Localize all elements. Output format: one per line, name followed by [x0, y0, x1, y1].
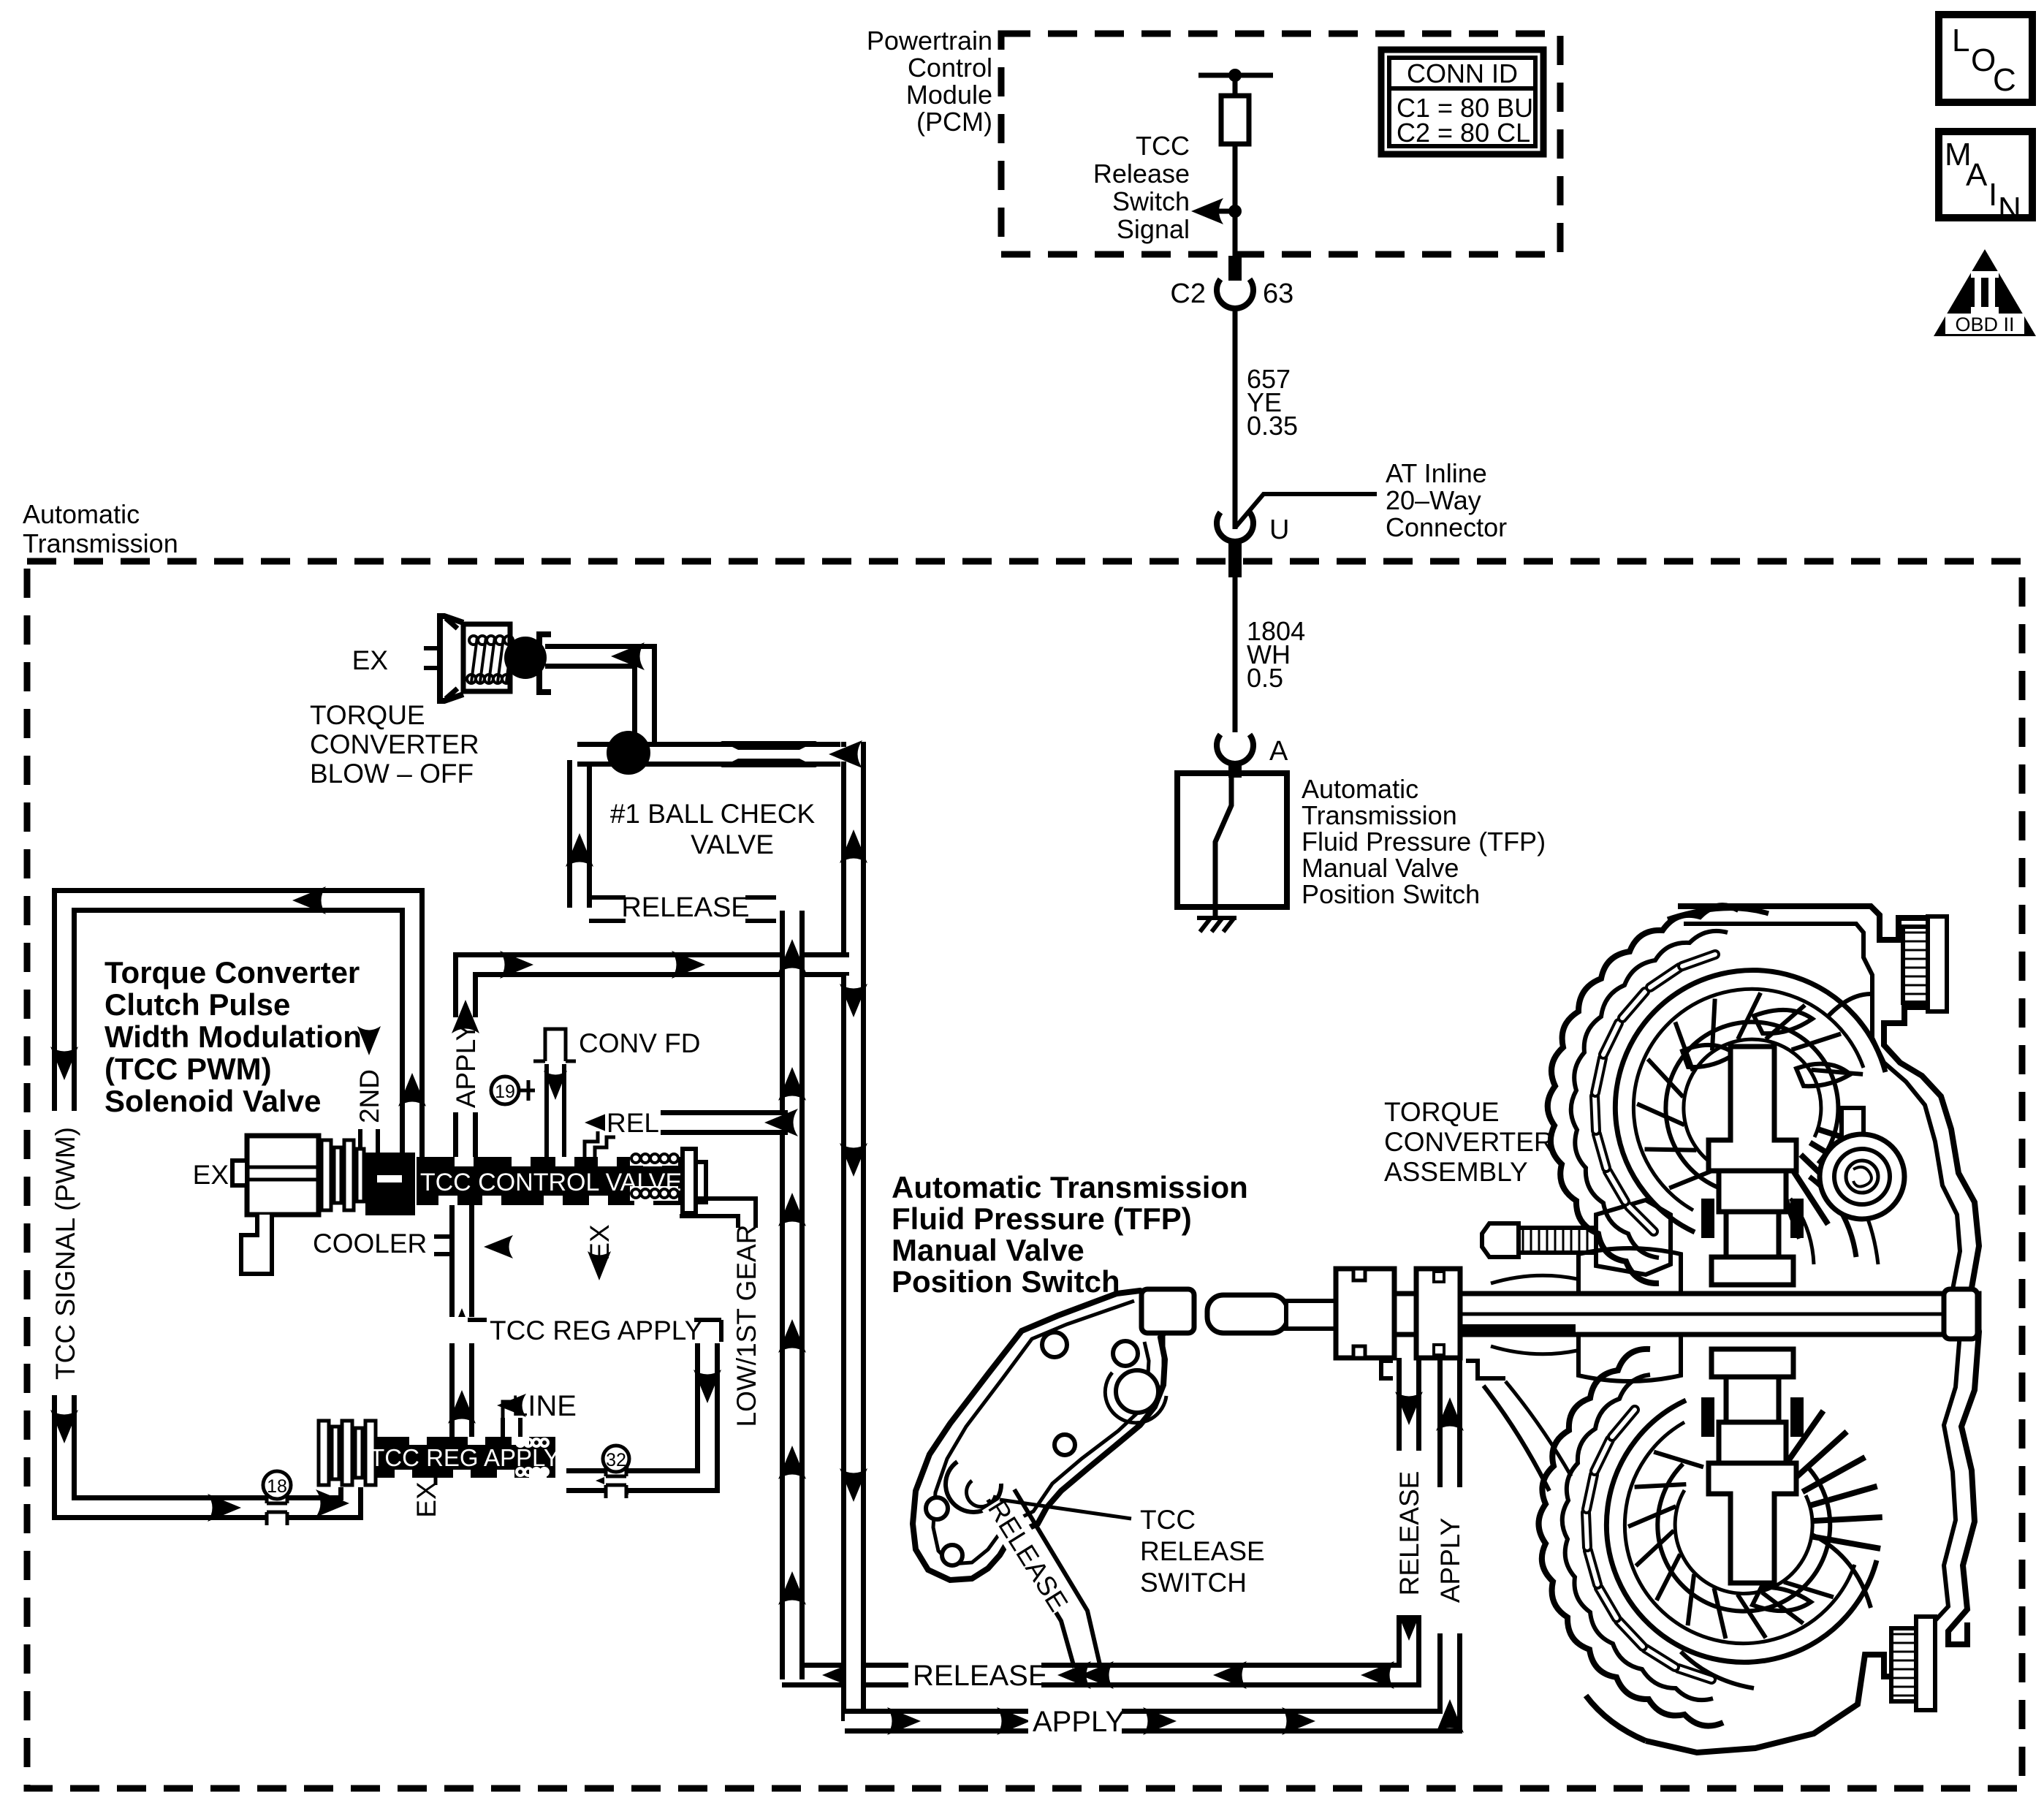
ball check valve seat: [721, 741, 817, 750]
svg-text:EX: EX: [411, 1481, 441, 1517]
CONN ID table: [1381, 50, 1543, 154]
svg-text:Solenoid Valve: Solenoid Valve: [105, 1084, 321, 1118]
wire resistor to pin: [1233, 144, 1238, 257]
svg-text:C2: C2: [1170, 278, 1206, 309]
converter torus shell (bottom): [1539, 1349, 1724, 1726]
svg-text:Width Modulation: Width Modulation: [105, 1020, 362, 1054]
pipe reg apply feedback: [566, 1343, 707, 1481]
svg-text:APPLY: APPLY: [451, 1023, 481, 1109]
label APPLY (bottom channel): [1028, 1705, 1122, 1737]
svg-text:EX: EX: [352, 645, 388, 675]
svg-text:32: 32: [606, 1450, 626, 1470]
TCC release switch lever: [988, 1500, 1074, 1668]
TFP manual valve position switch (electrical): [1177, 773, 1287, 907]
TCC regulator apply valve: [376, 1437, 555, 1478]
converter stud (left): [1519, 1228, 1596, 1253]
turbine blades (top): [1669, 1169, 1717, 1188]
svg-text:L: L: [1952, 23, 1969, 58]
svg-text:C: C: [1993, 62, 2016, 98]
pipe ball check seat: [577, 742, 840, 767]
pipe ball check riser (upper): [841, 742, 866, 979]
svg-text:Clutch Pulse: Clutch Pulse: [105, 987, 290, 1022]
pipe apply from TCC control valve: [466, 965, 849, 1157]
svg-text:Position Switch: Position Switch: [892, 1264, 1120, 1299]
svg-text:A: A: [1269, 736, 1288, 767]
label RELEASE (ball check): [589, 895, 626, 900]
svg-text:#1 BALL CHECK: #1 BALL CHECK: [610, 799, 816, 829]
svg-text:Signal: Signal: [1117, 214, 1190, 244]
svg-text:(PCM): (PCM): [916, 107, 992, 137]
resistor (PCM pull-up): [1221, 96, 1249, 144]
pump hub collars: [1578, 1248, 1681, 1294]
connector A (TFP switch): [1217, 734, 1253, 764]
svg-text:CONVERTER: CONVERTER: [1384, 1127, 1554, 1157]
label APPLY (riser): [450, 1017, 481, 1112]
svg-text:Automatic Transmission: Automatic Transmission: [892, 1170, 1248, 1204]
svg-text:CONVERTER: CONVERTER: [310, 729, 479, 759]
pipe release bottom: [782, 1358, 1409, 1675]
svg-text:SWITCH: SWITCH: [1140, 1568, 1247, 1598]
orifice 18: [265, 1495, 289, 1520]
torque converter blow-off valve: [424, 646, 441, 650]
svg-text:Powertrain: Powertrain: [867, 26, 992, 56]
svg-text:Switch: Switch: [1112, 186, 1190, 216]
input shaft: [1207, 1295, 1288, 1333]
converter hub (bottom): [1709, 1463, 1796, 1583]
label REL: [605, 1106, 661, 1139]
AT inline 20-way connector U: [1233, 512, 1238, 529]
Automatic Transmission dashed box: [27, 561, 2022, 1788]
pipe blow-off: [545, 656, 645, 750]
svg-text:Module: Module: [906, 80, 992, 110]
svg-text:APPLY: APPLY: [1033, 1706, 1125, 1738]
svg-text:RELEASE: RELEASE: [1140, 1536, 1265, 1566]
svg-text:Manual Valve: Manual Valve: [1302, 853, 1459, 883]
svg-text:Connector: Connector: [1386, 512, 1507, 542]
converter hub (top): [1709, 1047, 1796, 1171]
TCC PWM solenoid valve: [247, 1136, 319, 1215]
stator blades (top): [1816, 1128, 1884, 1150]
label APPLY (converter riser): [1435, 1487, 1465, 1633]
svg-text:0.5: 0.5: [1247, 663, 1283, 693]
TFP connector tab: [1141, 1289, 1194, 1333]
TFP manual valve position switch body: [913, 1291, 1169, 1580]
svg-text:Control: Control: [908, 53, 992, 83]
connector C2 pin 63: [1228, 256, 1242, 281]
svg-text:N: N: [1998, 191, 2021, 227]
svg-text:U: U: [1269, 515, 1289, 545]
svg-text:ASSEMBLY: ASSEMBLY: [1384, 1157, 1528, 1187]
label RELEASE (converter riser): [1394, 1451, 1424, 1615]
stator blades (bottom): [1782, 1411, 1823, 1469]
pipe converter apply riser (lower): [841, 976, 866, 1721]
svg-text:LINE: LINE: [512, 1390, 577, 1422]
svg-text:20–Way: 20–Way: [1386, 485, 1481, 515]
shell slots (top): [1629, 1207, 1654, 1231]
svg-text:19: 19: [495, 1082, 515, 1102]
svg-text:TCC: TCC: [1140, 1505, 1196, 1535]
turbine shell arcs (top): [1615, 971, 1885, 1232]
svg-text:18: 18: [267, 1476, 287, 1497]
PCM dashed box: [1001, 34, 1560, 254]
svg-text:Automatic: Automatic: [23, 499, 140, 529]
svg-text:Torque Converter: Torque Converter: [105, 955, 360, 990]
wire 1804 WH 0.5: [1233, 577, 1238, 732]
pipe REL: [614, 1110, 788, 1135]
valve spring: [630, 1151, 678, 1166]
svg-text:CONV FD: CONV FD: [579, 1028, 701, 1058]
svg-text:C2 = 80 CL: C2 = 80 CL: [1397, 118, 1530, 148]
svg-text:Transmission: Transmission: [23, 528, 178, 558]
clutch wings (top): [1754, 1010, 1812, 1033]
converter bearing boss: [1842, 1108, 1863, 1155]
pipe conv fd: [544, 1064, 566, 1157]
OBD II icon: [1934, 249, 2036, 336]
svg-text:(TCC PWM): (TCC PWM): [105, 1052, 272, 1086]
svg-text:TCC REG APPLY: TCC REG APPLY: [370, 1444, 560, 1471]
converter housing shell: [1678, 906, 1979, 1644]
svg-text:AT Inline: AT Inline: [1386, 458, 1487, 488]
converter torus shell (top): [1548, 905, 1739, 1283]
turbine blades (bottom): [1784, 1582, 1834, 1598]
orifice 19: [491, 1077, 519, 1104]
svg-text:RELEASE: RELEASE: [1394, 1471, 1424, 1596]
svg-text:RELEASE: RELEASE: [621, 892, 749, 923]
pipe apply bottom: [845, 1358, 1450, 1721]
svg-text:EX: EX: [193, 1160, 229, 1190]
svg-text:Release: Release: [1093, 159, 1190, 189]
orifice 32: [604, 1468, 628, 1493]
ground: [1213, 907, 1218, 918]
svg-text:Automatic: Automatic: [1302, 774, 1418, 804]
pipe line: [501, 1418, 523, 1437]
svg-text:CONN ID: CONN ID: [1407, 58, 1518, 88]
svg-text:RELEASE: RELEASE: [913, 1660, 1048, 1692]
LOC icon: [1939, 15, 2032, 102]
pipe TCC signal loop top: [64, 900, 412, 1157]
svg-text:I: I: [1988, 177, 1997, 213]
svg-text:TORQUE: TORQUE: [310, 700, 425, 730]
label TCC REG APPLY (channel name): [448, 1317, 476, 1343]
svg-text:TCC: TCC: [1136, 131, 1190, 161]
svg-text:OBD II: OBD II: [1955, 314, 2014, 335]
pipe cooler / reg apply: [449, 1205, 474, 1437]
converter stud (top right): [1903, 927, 1928, 1003]
pipe release to ball check: [567, 760, 592, 908]
pipe low/1st gear: [680, 1207, 747, 1228]
TCC release switch signal arrow: [1201, 209, 1236, 214]
TCC regulator apply valve solenoid: [319, 1421, 329, 1485]
solenoid black block: [365, 1153, 415, 1215]
label TCC SIGNAL (PWM): [48, 1111, 80, 1395]
svg-text:Fluid Pressure (TFP): Fluid Pressure (TFP): [1302, 827, 1546, 857]
svg-text:63: 63: [1263, 278, 1293, 309]
svg-text:Manual Valve: Manual Valve: [892, 1233, 1084, 1267]
svg-text:TORQUE: TORQUE: [1384, 1097, 1500, 1127]
label RELEASE (bottom channel): [908, 1659, 1041, 1691]
svg-text:0.35: 0.35: [1247, 411, 1298, 441]
turbine shell arcs (bottom): [1606, 1400, 1877, 1662]
svg-text:APPLY: APPLY: [1435, 1518, 1465, 1603]
blow-off spring: [469, 636, 478, 645]
label TCC RELEASE SWITCH: [1000, 1500, 1131, 1519]
pump vanes (top right): [1809, 1177, 1856, 1257]
svg-text:REL: REL: [607, 1108, 659, 1138]
blow-off ball: [504, 637, 547, 679]
shaft spline: [1459, 1324, 1576, 1336]
TFP bolt holes: [1042, 1332, 1067, 1357]
svg-text:TCC REG APPLY: TCC REG APPLY: [490, 1315, 702, 1345]
svg-text:LOW/1ST GEAR: LOW/1ST GEAR: [732, 1225, 761, 1427]
svg-text:VALVE: VALVE: [691, 829, 774, 859]
TCC control valve: [417, 1157, 685, 1205]
svg-text:2ND: 2ND: [354, 1069, 384, 1123]
svg-text:A: A: [1966, 157, 1988, 193]
pipe 2nd: [358, 1129, 380, 1157]
svg-text:Fluid Pressure (TFP): Fluid Pressure (TFP): [892, 1201, 1192, 1236]
label RELEASE (lever): [982, 1493, 1076, 1617]
pipe TCC signal loop bottom: [64, 1392, 351, 1508]
pipe release main riser: [780, 911, 805, 1679]
wire PCM internal: [1198, 73, 1273, 78]
svg-text:BLOW – OFF: BLOW – OFF: [310, 759, 474, 789]
shell slots (bottom): [1679, 1668, 1711, 1679]
converter stud (bottom right): [1891, 1628, 1916, 1701]
wire 657 YE 0.35: [1233, 305, 1238, 512]
riser connection steps: [1381, 1361, 1393, 1378]
svg-text:Transmission: Transmission: [1302, 800, 1457, 830]
MAIN icon: [1939, 132, 2032, 218]
svg-text:TCC SIGNAL (PWM): TCC SIGNAL (PWM): [50, 1127, 80, 1380]
svg-text:Position Switch: Position Switch: [1302, 879, 1480, 909]
#1 check ball: [607, 731, 650, 775]
svg-text:COOLER: COOLER: [313, 1229, 427, 1258]
